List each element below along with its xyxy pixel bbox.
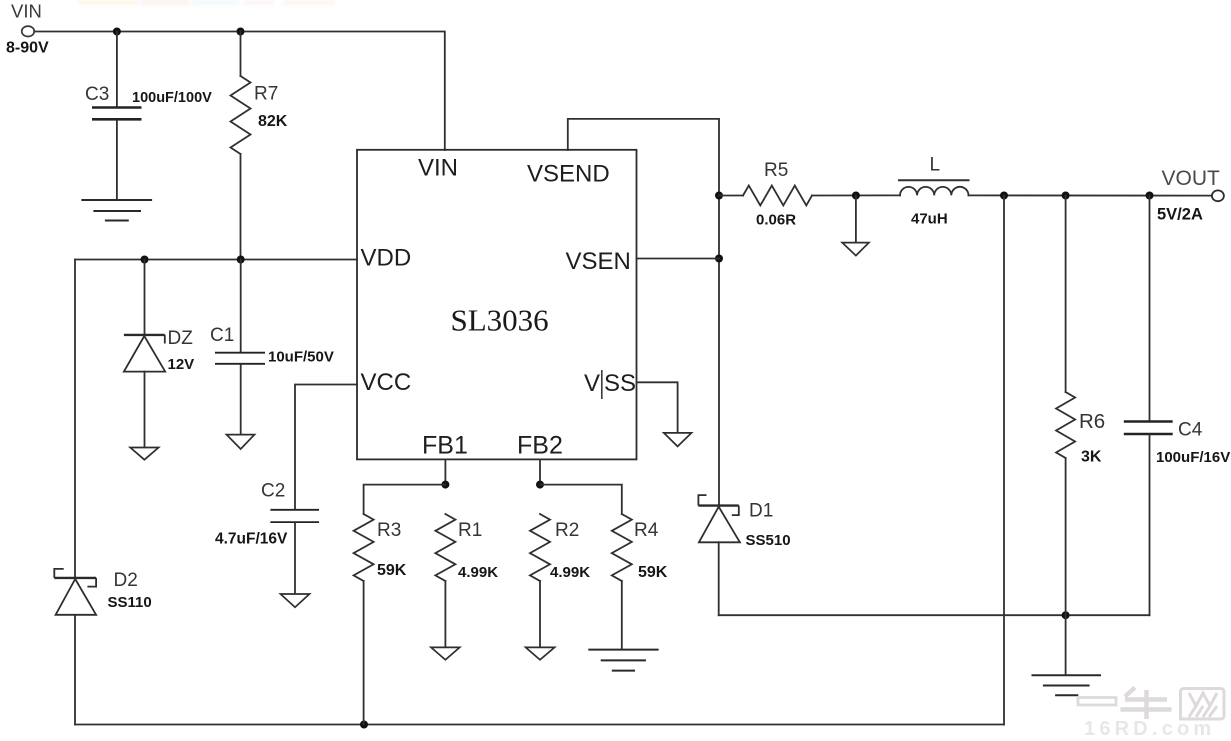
svg-text:VDD: VDD [361, 245, 412, 272]
svg-text:0.06R: 0.06R [756, 212, 796, 229]
svg-text:16RD.com: 16RD.com [1084, 718, 1215, 740]
resistor R1 [435, 514, 498, 647]
node junction out/down wire [1000, 192, 1008, 200]
ground arrow stub [842, 243, 869, 256]
resistor R4 [612, 514, 668, 649]
ground arrow under C1 [227, 435, 255, 449]
svg-text:SL3036: SL3036 [451, 303, 549, 338]
wire VDD rail [75, 259, 357, 261]
wire ground stub [855, 196, 857, 243]
node VOUT terminal [1157, 167, 1224, 224]
svg-text:SS110: SS110 [108, 594, 152, 611]
watermark yiniuwang [1078, 688, 1224, 720]
wire output ground rail [719, 614, 1150, 616]
svg-text:VOUT: VOUT [1162, 167, 1221, 190]
svg-text:R4: R4 [634, 520, 659, 541]
cursor artifact in VSS [601, 370, 603, 399]
faint clipped watermark top [78, 0, 335, 5]
schottky diode D1 SS510 [698, 495, 790, 615]
svg-text:D1: D1 [749, 501, 773, 522]
svg-text:47uH: 47uH [911, 211, 948, 228]
svg-text:VSEN: VSEN [566, 248, 631, 275]
svg-text:R5: R5 [764, 160, 788, 181]
svg-text:SS510: SS510 [746, 532, 791, 549]
ground arrow under R2 [526, 647, 555, 659]
svg-text:R6: R6 [1079, 410, 1105, 433]
svg-text:D2: D2 [114, 570, 138, 591]
node junction top rail C3 [113, 28, 121, 36]
svg-text:R7: R7 [254, 84, 278, 105]
node junction top rail R7 [237, 28, 245, 36]
svg-text:4.99K: 4.99K [550, 564, 590, 581]
svg-text:L: L [930, 155, 941, 176]
resistor R5 0.06R [719, 160, 900, 229]
svg-text:R2: R2 [555, 520, 579, 541]
capacitor C2 [215, 481, 319, 594]
wire VSEND to switch node [568, 119, 719, 505]
wire VCC to C2 [295, 385, 357, 510]
node VIN terminal [6, 1, 49, 57]
svg-text:8-90V: 8-90V [6, 40, 49, 57]
wire left vertical VDD to D2 [74, 260, 76, 578]
capacitor C3 [85, 32, 212, 200]
svg-text:VCC: VCC [361, 369, 412, 396]
svg-text:FB1: FB1 [422, 432, 468, 460]
node junction FB2 [536, 481, 544, 489]
svg-text:V: V [584, 370, 600, 397]
ground arrow under R1 [431, 647, 460, 659]
ground arrow under DZ [130, 448, 158, 460]
ground arrow VSS [664, 433, 692, 447]
inductor L 47uH [899, 155, 969, 228]
svg-text:VIN: VIN [11, 1, 42, 22]
wire VSEN [637, 258, 720, 260]
wire D2 to bottom rail [74, 616, 76, 725]
resistor R3 [354, 514, 407, 725]
svg-text:R1: R1 [458, 520, 482, 541]
wire FB2 to R4 [540, 485, 622, 514]
zener diode DZ 12V [124, 260, 194, 448]
node junction SW/R5 [715, 192, 723, 200]
svg-text:C3: C3 [85, 84, 109, 105]
wire FB1 to R3 [364, 485, 446, 514]
schottky diode D2 SS110 [54, 569, 151, 615]
wire top rail VIN to IC [34, 32, 445, 151]
IC U1 SL3036 box [357, 150, 637, 460]
wire bottom rail [75, 724, 1004, 726]
svg-text:3K: 3K [1081, 449, 1102, 466]
svg-text:82K: 82K [258, 113, 288, 130]
svg-text:59K: 59K [377, 562, 407, 579]
svg-text:10uF/50V: 10uF/50V [268, 349, 334, 366]
ground earth under C3 [81, 200, 152, 221]
ground earth bottom right [1032, 675, 1102, 695]
wire L to VOUT [969, 194, 1212, 196]
node junction bottom rail R3 [360, 721, 368, 729]
svg-text:12V: 12V [168, 356, 195, 373]
svg-text:100uF/100V: 100uF/100V [132, 90, 212, 106]
node junction SW/VSEN [715, 255, 723, 263]
node junction R5/L ground stub [852, 192, 860, 200]
node junction out/R6 [1062, 192, 1070, 200]
capacitor C1 [210, 260, 334, 435]
node junction out/C4 [1146, 192, 1154, 200]
svg-text:VIN: VIN [418, 155, 458, 182]
svg-text:C4: C4 [1178, 420, 1203, 441]
wire output to bottom rail [1003, 196, 1005, 725]
ground earth under R4 [588, 650, 658, 671]
node junction VDD/C1 [237, 256, 245, 264]
node junction FB1 [441, 481, 449, 489]
svg-text:59K: 59K [638, 564, 668, 581]
node junction rail R6 [1062, 611, 1070, 619]
svg-text:C1: C1 [210, 325, 234, 346]
capacitor C4 [1124, 196, 1230, 616]
resistor R6 3K [1056, 196, 1105, 616]
svg-text:FB2: FB2 [517, 432, 563, 460]
svg-text:4.7uF/16V: 4.7uF/16V [215, 531, 288, 548]
wire FB2 [539, 459, 541, 484]
svg-text:DZ: DZ [168, 328, 194, 349]
wire VSS to ground [637, 382, 678, 432]
node junction VDD/DZ [141, 256, 149, 264]
resistor R2 [530, 514, 590, 647]
svg-text:R3: R3 [377, 520, 401, 541]
wire FB1 [444, 459, 446, 484]
svg-text:100uF/16V: 100uF/16V [1156, 449, 1230, 466]
svg-text:SS: SS [604, 370, 636, 397]
svg-text:5V/2A: 5V/2A [1157, 206, 1203, 224]
resistor R7 [231, 32, 288, 260]
wire rail to earth [1065, 615, 1067, 675]
svg-text:4.99K: 4.99K [458, 564, 498, 581]
svg-text:VSEND: VSEND [527, 161, 610, 188]
svg-text:C2: C2 [261, 481, 285, 502]
ground arrow under C2 [281, 594, 310, 607]
